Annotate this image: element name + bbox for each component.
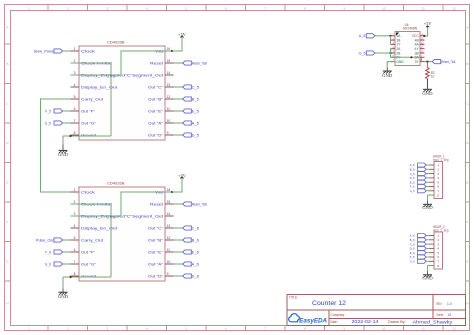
svg-text:6: 6: [225, 327, 227, 331]
svg-text:Out "F": Out "F": [81, 250, 96, 254]
net flag C_5 at IC1: [174, 85, 200, 90]
svg-text:F_6: F_6: [45, 250, 51, 254]
net flag A_5 at HOUR_1: [410, 163, 429, 167]
ground below R2: [422, 89, 432, 96]
svg-text:10: 10: [167, 260, 171, 264]
wire: U6 2Y to 3A/3B tie: [391, 56, 422, 61]
svg-text:Carry_Out: Carry_Out: [81, 97, 103, 101]
svg-text:B_5: B_5: [192, 97, 199, 101]
net flag A_5 into U6: [359, 34, 392, 45]
svg-text:5: 5: [185, 327, 187, 331]
svg-text:10: 10: [167, 119, 171, 123]
svg-text:Ground: Ground: [81, 274, 96, 278]
svg-text:9: 9: [343, 327, 345, 331]
svg-text:6: 6: [225, 6, 227, 10]
svg-text:Counter 12: Counter 12: [312, 301, 347, 307]
svg-text:CD4026B: CD4026B: [107, 182, 125, 186]
net flag Slow_Pulse: [34, 49, 71, 54]
svg-text:Reset: Reset: [150, 202, 163, 206]
svg-text:Out "A": Out "A": [148, 262, 164, 266]
svg-text:11: 11: [167, 107, 171, 111]
+5V supply at U6 VCC: [423, 21, 431, 37]
svg-text:10: 10: [382, 327, 386, 331]
net flag C_5 at HOUR_1: [410, 172, 429, 176]
wire: display_en_in (pin3) to Vdd: [71, 50, 174, 75]
svg-text:Slow_Pulse: Slow_Pulse: [34, 49, 54, 53]
svg-text:F: F: [467, 220, 469, 224]
wire: IC2 clock inhibit (pin2) to ground rail: [71, 204, 112, 277]
svg-text:Out "A": Out "A": [148, 121, 164, 125]
svg-text:Reset: Reset: [150, 61, 163, 65]
svg-text:3: 3: [106, 6, 108, 10]
svg-text:5: 5: [74, 236, 76, 240]
svg-text:H: H: [466, 302, 468, 306]
svg-text:4: 4: [74, 83, 76, 87]
svg-text:1k: 1k: [431, 74, 435, 78]
svg-text:Out "D": Out "D": [148, 274, 164, 278]
svg-text:Out "G": Out "G": [81, 262, 97, 266]
net flag A_6 at IC2: [174, 262, 200, 267]
svg-text:Out "C": Out "C": [148, 85, 164, 89]
svg-text:REV: REV: [436, 302, 442, 306]
svg-text:9: 9: [167, 272, 169, 276]
svg-text:11: 11: [167, 248, 171, 252]
svg-text:13: 13: [167, 83, 171, 87]
svg-text:Ground: Ground: [81, 133, 96, 137]
ground at HOUR_2 pin8: [422, 266, 434, 281]
connector HOUR_2 Hour_2_Seg: [429, 225, 449, 269]
wire: IC2 display_en_in (pin3) to Vdd: [71, 191, 174, 216]
net flag B_6 at HOUR_2: [410, 238, 429, 242]
net flag Pulse_Osc: [36, 238, 71, 243]
svg-text:TITLE:: TITLE:: [289, 295, 298, 299]
net flag E_6 at IC2: [174, 250, 200, 255]
ground symbol below IC1: [58, 136, 68, 157]
svg-text:B: B: [6, 62, 8, 66]
svg-text:Reset_7&8: Reset_7&8: [192, 61, 207, 65]
svg-text:E: E: [466, 181, 468, 185]
svg-text:Ahmed_Shawky: Ahmed_Shawky: [413, 320, 453, 326]
svg-text:14: 14: [167, 212, 171, 216]
net flag F_5 at HOUR_1: [410, 185, 429, 189]
net flag E_6 at HOUR_2: [410, 251, 429, 255]
svg-text:11: 11: [422, 327, 425, 331]
svg-text:G_5: G_5: [45, 121, 51, 125]
svg-text:4: 4: [146, 6, 148, 10]
net flag A_6 at HOUR_2: [410, 234, 429, 238]
net flag C_6 at HOUR_2: [410, 242, 429, 246]
svg-text:Out "D": Out "D": [148, 133, 164, 137]
net flag B_6 at IC2: [174, 238, 200, 243]
svg-text:4: 4: [146, 327, 148, 331]
svg-text:GND: GND: [422, 276, 432, 281]
svg-text:Drawn By:: Drawn By:: [388, 320, 406, 324]
svg-text:7: 7: [74, 260, 76, 264]
svg-text:G_6: G_6: [410, 260, 415, 264]
title block: [287, 295, 466, 326]
svg-text:13: 13: [167, 224, 171, 228]
svg-text:Reset_7&8: Reset_7&8: [192, 202, 207, 206]
ground at HOUR_1 pin8: [422, 195, 434, 210]
net flag G_5: [45, 121, 71, 126]
svg-text:GND: GND: [58, 294, 68, 299]
svg-text:1: 1: [74, 188, 76, 192]
svg-text:A_5: A_5: [359, 34, 366, 38]
svg-text:Out "B": Out "B": [148, 97, 164, 101]
svg-text:5: 5: [74, 95, 76, 99]
ground at U6 GND pin: [382, 62, 395, 78]
net flag B_5 at HOUR_1: [410, 167, 429, 171]
svg-text:6: 6: [74, 107, 76, 111]
svg-text:Out "C": Out "C": [148, 226, 164, 230]
svg-text:Sheet:: Sheet:: [436, 313, 443, 317]
svg-text:12: 12: [452, 6, 456, 10]
svg-text:Display_En_Out: Display_En_Out: [81, 85, 117, 89]
net flag F_6: [45, 250, 70, 255]
EasyEDA logo: [289, 314, 328, 325]
svg-text:8: 8: [304, 327, 306, 331]
svg-text:8: 8: [304, 6, 306, 10]
svg-text:B_6: B_6: [192, 238, 199, 242]
svg-text:A_6: A_6: [192, 262, 199, 266]
net flag G_5 at HOUR_1: [410, 189, 429, 193]
net flag B_5 at IC1: [174, 97, 200, 102]
svg-text:GND: GND: [422, 91, 432, 96]
svg-text:14: 14: [167, 71, 171, 75]
svg-text:2022-02-14: 2022-02-14: [352, 319, 380, 324]
svg-text:H: H: [6, 302, 8, 306]
wire: IC1 carry_out to IC2 clock: [41, 99, 71, 192]
svg-text:+5V: +5V: [178, 173, 186, 178]
svg-text:G_6: G_6: [45, 262, 51, 266]
svg-text:1/1: 1/1: [447, 313, 451, 317]
svg-text:Company:: Company:: [331, 313, 346, 317]
connector HOUR_1 Hour_1_Seg: [429, 154, 449, 198]
net flag G_6 at HOUR_2: [410, 259, 429, 263]
svg-text:Pulse_Osc: Pulse_Osc: [36, 238, 54, 242]
net flag Reset_7&8 at IC2: [174, 202, 207, 207]
svg-text:G_5: G_5: [359, 51, 366, 55]
svg-text:1.0: 1.0: [447, 302, 452, 306]
svg-text:1: 1: [74, 47, 76, 51]
net flag Reset_7&8 at IC1: [174, 61, 207, 66]
svg-text:8: 8: [74, 131, 76, 135]
svg-text:12: 12: [167, 236, 171, 240]
svg-text:Out "B": Out "B": [148, 238, 164, 242]
svg-text:Out "F": Out "F": [81, 109, 96, 113]
wire: clock inhibit (pin2) to ground rail: [71, 63, 112, 136]
net flag D_5 at HOUR_1: [410, 176, 429, 180]
net flag D_6 at IC2: [174, 274, 200, 279]
svg-text:12: 12: [452, 327, 456, 331]
wire: IC2 ground rail pin8: [63, 276, 111, 278]
net flag E_5 at IC1: [174, 109, 200, 114]
svg-text:7: 7: [74, 119, 76, 123]
svg-text:B: B: [466, 62, 468, 66]
net flag Reset_7&8 at U6 output: [432, 60, 455, 64]
svg-text:2: 2: [67, 327, 69, 331]
svg-text:GND: GND: [58, 152, 68, 157]
svg-text:8: 8: [74, 272, 76, 276]
net flag D_5 at IC1: [174, 133, 200, 138]
svg-text:E: E: [6, 181, 8, 185]
svg-text:Reset_7&8: Reset_7&8: [441, 60, 455, 64]
svg-text:GND: GND: [422, 205, 432, 210]
counter IC CD4026B #2 (bottom): [71, 182, 174, 281]
svg-text:12: 12: [167, 95, 171, 99]
svg-text:F: F: [7, 220, 9, 224]
svg-text:9: 9: [167, 131, 169, 135]
ground symbol below IC2: [58, 277, 68, 299]
svg-text:3Y: 3Y: [415, 60, 420, 64]
svg-text:11: 11: [422, 6, 425, 10]
net flag G_5 into U6: [359, 49, 392, 58]
svg-text:Out "E": Out "E": [148, 109, 164, 113]
wire: U6 3Y output to Reset net: [425, 61, 433, 63]
svg-text:CD4026B: CD4026B: [107, 41, 125, 45]
svg-text:Clock: Clock: [81, 190, 95, 194]
svg-text:EasyEDA: EasyEDA: [299, 317, 327, 324]
net flag D_6 at HOUR_2: [410, 246, 429, 250]
svg-text:9: 9: [343, 6, 345, 10]
svg-text:15: 15: [167, 200, 171, 204]
svg-text:+5V: +5V: [424, 21, 432, 26]
+5V supply at IC2: [172, 173, 186, 192]
svg-text:5: 5: [185, 6, 187, 10]
net flag E_5 at HOUR_1: [410, 180, 429, 184]
svg-text:F_5: F_5: [45, 109, 51, 113]
svg-text:15: 15: [167, 59, 171, 63]
svg-text:6: 6: [74, 248, 76, 252]
svg-text:SN7408N: SN7408N: [403, 27, 418, 31]
svg-text:3: 3: [106, 327, 108, 331]
svg-text:A_5: A_5: [192, 121, 199, 125]
svg-text:G_5: G_5: [410, 189, 415, 193]
net flag F_5: [45, 109, 70, 114]
svg-text:E_5: E_5: [192, 109, 199, 113]
+5V supply at IC1: [172, 32, 186, 51]
svg-text:Carry_Out: Carry_Out: [81, 238, 103, 242]
svg-text:C_5: C_5: [192, 85, 199, 89]
svg-text:1: 1: [28, 327, 30, 331]
svg-text:Out "E": Out "E": [148, 250, 164, 254]
svg-text:GND: GND: [382, 73, 392, 78]
svg-text:+5V: +5V: [178, 32, 186, 37]
wire: ground rail pin8: [63, 135, 111, 137]
svg-text:C_6: C_6: [192, 226, 199, 230]
counter IC CD4026B #1 (top): [71, 41, 174, 140]
svg-text:7: 7: [264, 327, 266, 331]
svg-text:D_5: D_5: [192, 133, 199, 137]
svg-text:Display_En_Out: Display_En_Out: [81, 226, 117, 230]
net flag G_6: [45, 262, 71, 267]
AND gate IC U6 SN7408N: [391, 23, 425, 65]
svg-text:GND: GND: [396, 60, 404, 64]
net flag F_6 at HOUR_2: [410, 255, 429, 259]
svg-text:Clock: Clock: [81, 49, 95, 53]
svg-text:Out "G": Out "G": [81, 121, 97, 125]
svg-text:D_6: D_6: [192, 274, 199, 278]
resistor R2 1k: [426, 62, 435, 90]
svg-text:1: 1: [28, 6, 30, 10]
svg-text:2: 2: [67, 6, 69, 10]
svg-text:4: 4: [74, 224, 76, 228]
svg-text:10: 10: [382, 6, 386, 10]
svg-text:Date:: Date:: [331, 320, 338, 324]
net flag C_6 at IC2: [174, 226, 200, 231]
svg-text:E_6: E_6: [192, 250, 199, 254]
net flag A_5 at IC1: [174, 121, 200, 126]
svg-text:7: 7: [264, 6, 266, 10]
